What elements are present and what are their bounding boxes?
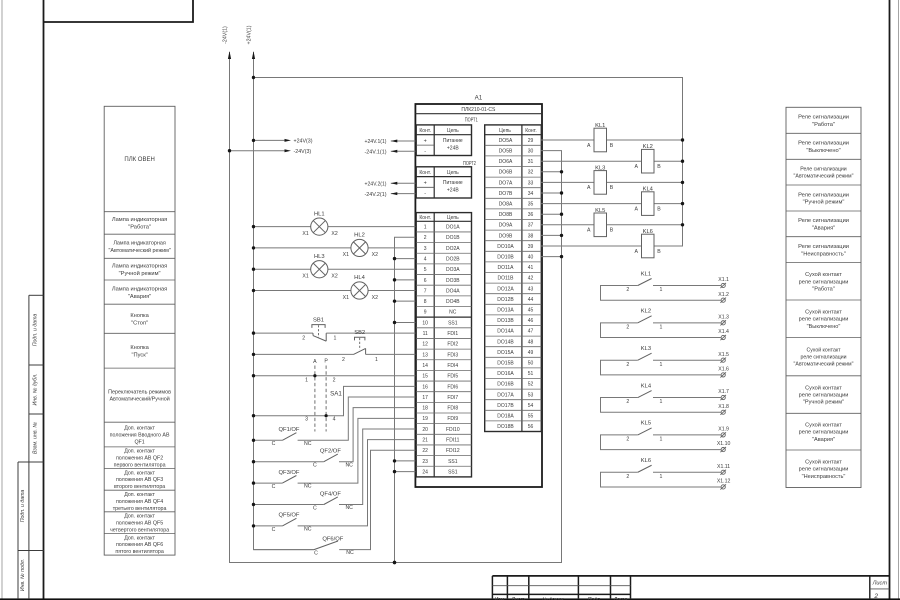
svg-text:QF1: QF1	[134, 439, 144, 445]
svg-text:реле сигнализации: реле сигнализации	[799, 467, 849, 473]
svg-text:B: B	[657, 249, 661, 255]
svg-text:Конт.: Конт.	[419, 128, 431, 134]
svg-text:Реле сигнализации: Реле сигнализации	[798, 115, 849, 121]
svg-text:X2: X2	[331, 274, 337, 280]
svg-text:DO14A: DO14A	[497, 329, 514, 335]
top-left stamp box	[44, 0, 194, 22]
svg-text:DO6B: DO6B	[499, 170, 513, 176]
wire -24V.2(1) to PORT2-	[365, 192, 416, 198]
svg-text:положения Вводного АВ: положения Вводного АВ	[110, 432, 170, 438]
svg-text:Лампа индикаторная: Лампа индикаторная	[113, 240, 166, 246]
svg-text:NC: NC	[449, 310, 457, 316]
svg-text:KL1: KL1	[641, 271, 651, 277]
svg-text:X1.10: X1.10	[717, 441, 731, 447]
svg-text:DO7A: DO7A	[499, 180, 513, 186]
svg-text:Реле сигнализации: Реле сигнализации	[798, 141, 849, 147]
svg-text:третьего вентилятора: третьего вентилятора	[113, 506, 167, 512]
svg-text:Автоматический/Ручной: Автоматический/Ручной	[109, 396, 169, 403]
svg-text:Сухой контакт: Сухой контакт	[805, 309, 842, 316]
node top rail tap	[252, 76, 255, 79]
node pin 10 junction	[393, 321, 396, 324]
svg-text:реле сигнализации: реле сигнализации	[799, 430, 849, 436]
svg-text:35: 35	[528, 202, 534, 208]
wire PLC pin 10 stub	[395, 321, 416, 323]
svg-text:X1.7: X1.7	[718, 389, 729, 395]
svg-text:DO3B: DO3B	[446, 278, 460, 284]
svg-text:FDI11: FDI11	[446, 438, 459, 444]
relay coil KL5	[541, 208, 684, 237]
svg-text:37: 37	[528, 223, 534, 229]
svg-text:KL6: KL6	[643, 229, 653, 235]
svg-text:Сухой контакт: Сухой контакт	[805, 384, 842, 391]
svg-text:"Автоматический режим": "Автоматический режим"	[794, 173, 854, 180]
svg-text:32: 32	[528, 170, 534, 176]
svg-text:положения АВ QF4: положения АВ QF4	[116, 499, 163, 505]
svg-text:A: A	[634, 206, 638, 212]
rail -24V(1)	[223, 26, 562, 563]
svg-text:Сухой контакт: Сухой контакт	[806, 346, 841, 353]
svg-text:2: 2	[626, 474, 629, 480]
svg-text:21: 21	[422, 438, 428, 444]
svg-text:"Ручной режим": "Ручной режим"	[803, 399, 844, 406]
svg-text:X2: X2	[372, 252, 378, 258]
svg-text:Взам. инв. №: Взам. инв. №	[33, 422, 39, 454]
relay contact KL5	[601, 421, 721, 450]
svg-text:KL3: KL3	[595, 165, 605, 171]
svg-text:P: P	[324, 358, 328, 364]
svg-text:C: C	[313, 463, 317, 469]
svg-text:HL1: HL1	[314, 211, 325, 217]
svg-text:51: 51	[528, 371, 534, 377]
svg-text:DO15A: DO15A	[497, 350, 514, 356]
svg-text:положения АВ QF3: положения АВ QF3	[116, 477, 163, 483]
svg-text:положения АВ QF6: положения АВ QF6	[116, 542, 163, 548]
svg-text:3: 3	[305, 417, 308, 423]
svg-text:11: 11	[423, 331, 428, 337]
relay coil KL1	[541, 123, 684, 152]
svg-text:+24V.1(1): +24V.1(1)	[365, 139, 387, 145]
wire top rail to coil bus	[254, 78, 683, 247]
svg-text:10: 10	[422, 320, 428, 326]
terminal X1.9	[718, 427, 729, 438]
svg-text:Сухой контакт: Сухой контакт	[805, 271, 842, 278]
title block	[492, 576, 889, 600]
svg-text:реле сигнализации: реле сигнализации	[799, 393, 849, 399]
wire +24V.2(1) to PORT2+	[365, 182, 416, 188]
svg-text:пятого вентилятора: пятого вентилятора	[115, 549, 164, 555]
svg-text:DO13B: DO13B	[497, 318, 514, 324]
svg-text:KL4: KL4	[641, 383, 652, 389]
svg-text:15: 15	[422, 374, 428, 380]
svg-text:DO1A: DO1A	[446, 225, 460, 231]
svg-text:FDI3: FDI3	[447, 352, 458, 358]
svg-text:Доп. контакт: Доп. контакт	[124, 449, 155, 455]
svg-text:KL2: KL2	[641, 309, 651, 315]
svg-text:50: 50	[528, 361, 534, 367]
svg-text:HL2: HL2	[354, 233, 365, 239]
PLC right pin table	[485, 125, 542, 432]
svg-text:NC: NC	[304, 527, 312, 533]
svg-text:B: B	[610, 185, 614, 191]
svg-text:"Авария": "Авария"	[128, 294, 151, 300]
svg-text:A: A	[313, 359, 317, 365]
svg-text:X1.6: X1.6	[718, 367, 729, 373]
svg-text:2: 2	[626, 362, 629, 368]
svg-text:7: 7	[424, 288, 427, 294]
svg-text:41: 41	[528, 265, 534, 271]
svg-text:-: -	[424, 191, 426, 197]
breaker aux contact QF4/OF	[252, 429, 416, 511]
svg-text:"Неисправность": "Неисправность"	[801, 251, 845, 257]
svg-text:SS1: SS1	[448, 459, 458, 465]
PLC left pin table	[416, 213, 471, 477]
svg-text:24: 24	[422, 469, 428, 475]
svg-text:Цепь: Цепь	[447, 128, 459, 134]
svg-text:"Ручной режим": "Ручной режим"	[119, 270, 161, 277]
selector switch SA1	[313, 358, 342, 431]
svg-text:X1.2: X1.2	[718, 292, 729, 298]
rail +24V(1)	[247, 25, 314, 549]
svg-text:X1: X1	[302, 274, 308, 280]
svg-text:SS1: SS1	[448, 469, 458, 475]
svg-text:"Неисправность": "Неисправность"	[802, 474, 846, 480]
relay contact KL2	[601, 309, 721, 338]
terminal X1.8	[718, 404, 729, 415]
terminal X1.6	[718, 367, 729, 378]
svg-text:2: 2	[873, 593, 878, 600]
relay contact KL1	[601, 271, 721, 300]
svg-text:положения АВ QF5: положения АВ QF5	[116, 520, 163, 526]
node pin 8 junction	[393, 299, 396, 302]
svg-text:14: 14	[422, 363, 428, 369]
svg-text:NC: NC	[304, 484, 312, 490]
svg-text:33: 33	[528, 180, 534, 186]
terminal X1.1	[718, 277, 729, 288]
PLC model row PLK210-01-CS	[415, 107, 542, 114]
svg-text:DO3A: DO3A	[446, 267, 460, 273]
svg-text:Реле сигнализации: Реле сигнализации	[798, 218, 849, 224]
svg-text:+24V(3): +24V(3)	[294, 139, 313, 145]
svg-text:Лампа индикаторная: Лампа индикаторная	[112, 217, 167, 223]
SA1 contact 3-4	[252, 386, 416, 422]
svg-text:49: 49	[528, 350, 534, 356]
svg-text:A: A	[634, 249, 638, 255]
svg-text:C: C	[272, 527, 276, 533]
svg-text:реле сигнализации: реле сигнализации	[799, 317, 849, 323]
node pin 24 junction	[393, 470, 396, 473]
svg-text:DO16B: DO16B	[497, 382, 514, 388]
svg-text:DO15B: DO15B	[497, 361, 514, 367]
svg-text:2: 2	[626, 437, 629, 443]
svg-text:HL4: HL4	[354, 275, 365, 281]
svg-text:FDI12: FDI12	[446, 448, 460, 454]
svg-text:A1: A1	[475, 95, 483, 102]
breaker aux contact QF3/OF	[252, 418, 416, 490]
svg-text:ПОРТ1: ПОРТ1	[465, 118, 478, 124]
svg-text:56: 56	[528, 424, 534, 430]
svg-text:QF4/OF: QF4/OF	[320, 491, 341, 497]
svg-text:9: 9	[424, 310, 427, 316]
svg-text:2: 2	[626, 399, 629, 405]
svg-text:-: -	[424, 149, 426, 155]
wire -24V.1(1) to PORT1-	[365, 150, 416, 156]
svg-text:Конт.: Конт.	[419, 215, 431, 221]
svg-text:DO16A: DO16A	[497, 371, 514, 377]
svg-text:-24V.1(1): -24V.1(1)	[365, 150, 387, 156]
svg-text:23: 23	[422, 459, 428, 465]
svg-text:Конт.: Конт.	[525, 128, 537, 134]
lamp HL4	[252, 275, 416, 301]
wire PLC pin 23 stub	[395, 460, 416, 462]
svg-text:FDI5: FDI5	[447, 374, 458, 380]
svg-text:B: B	[610, 228, 614, 234]
relay coil KL2	[541, 144, 684, 173]
svg-text:Переключатель режимов: Переключатель режимов	[108, 389, 171, 395]
svg-text:DO12B: DO12B	[497, 297, 514, 303]
lamp HL3	[252, 254, 416, 280]
svg-text:FDI10: FDI10	[446, 427, 460, 433]
svg-text:Лампа индикаторная: Лампа индикаторная	[112, 263, 167, 269]
svg-text:DO4A: DO4A	[446, 288, 460, 294]
svg-text:DO9B: DO9B	[499, 233, 513, 239]
svg-text:38: 38	[528, 233, 534, 239]
node bottom rail x1	[393, 561, 396, 564]
svg-text:"Стоп": "Стоп"	[131, 320, 148, 326]
relay coil KL6	[541, 229, 683, 258]
svg-text:Доп. контакт: Доп. контакт	[124, 535, 155, 541]
SA1 contact 1-2	[252, 374, 416, 383]
svg-text:44: 44	[528, 297, 534, 303]
wire PLC pin 8 stub	[395, 300, 416, 302]
svg-text:SB1: SB1	[313, 317, 324, 323]
svg-text:NC: NC	[346, 550, 354, 556]
terminal X1.11	[717, 464, 730, 475]
svg-text:X1.3: X1.3	[718, 314, 729, 320]
pushbutton SB1	[252, 317, 416, 341]
svg-text:Реле сигнализации: Реле сигнализации	[800, 166, 846, 172]
svg-text:Цепь: Цепь	[447, 215, 459, 221]
svg-text:"Авария": "Авария"	[812, 226, 835, 232]
relay contact KL3	[601, 346, 721, 375]
svg-text:X1: X1	[343, 252, 349, 258]
svg-text:29: 29	[528, 138, 534, 144]
legend table left	[104, 106, 175, 555]
svg-text:Цепь: Цепь	[499, 128, 511, 134]
svg-text:Инв. № подл.: Инв. № подл.	[20, 559, 26, 591]
svg-text:+24V.2(1): +24V.2(1)	[365, 182, 387, 188]
svg-text:5: 5	[424, 267, 427, 273]
svg-text:DO18B: DO18B	[497, 424, 514, 430]
terminal X1.7	[718, 389, 729, 400]
svg-text:39: 39	[528, 244, 534, 250]
svg-text:DO13A: DO13A	[497, 308, 514, 314]
svg-text:45: 45	[528, 308, 534, 314]
terminal X1.4	[718, 329, 729, 340]
svg-text:C: C	[272, 441, 276, 447]
svg-text:X1.1: X1.1	[718, 277, 729, 283]
svg-text:FDI8: FDI8	[447, 406, 458, 412]
svg-text:X1: X1	[302, 231, 308, 237]
svg-text:DO9A: DO9A	[499, 223, 513, 229]
svg-text:реле сигнализации: реле сигнализации	[799, 279, 849, 285]
svg-text:46: 46	[528, 318, 534, 324]
svg-text:Доп. контакт: Доп. контакт	[124, 492, 155, 498]
svg-text:Реле сигнализации: Реле сигнализации	[798, 192, 849, 198]
svg-text:FDI6: FDI6	[447, 384, 458, 390]
svg-text:Кнопка: Кнопка	[130, 313, 149, 319]
svg-text:+24В: +24В	[447, 146, 459, 152]
svg-text:DO5A: DO5A	[499, 138, 513, 144]
relay coil KL4	[541, 187, 684, 216]
svg-text:DO17B: DO17B	[497, 403, 514, 409]
svg-text:Сухой контакт: Сухой контакт	[805, 421, 842, 428]
svg-text:DO8B: DO8B	[499, 212, 513, 218]
lamp HL2	[252, 233, 416, 259]
svg-text:-24V(1): -24V(1)	[223, 26, 229, 44]
wire tap -24V(3)	[228, 149, 312, 155]
svg-text:SS1: SS1	[448, 320, 458, 326]
svg-text:C: C	[314, 551, 318, 557]
svg-text:FDI1: FDI1	[447, 331, 458, 337]
svg-text:"Работа": "Работа"	[128, 225, 151, 231]
breaker aux contact QF1/OF	[252, 397, 416, 447]
svg-text:Доп. контакт: Доп. контакт	[124, 514, 155, 520]
left margin column boxes	[18, 295, 44, 598]
svg-text:2: 2	[302, 336, 305, 342]
svg-text:3: 3	[424, 246, 427, 252]
svg-text:DO6A: DO6A	[499, 159, 513, 165]
svg-text:DO2B: DO2B	[446, 256, 460, 262]
svg-text:2: 2	[626, 287, 629, 293]
svg-text:1: 1	[659, 287, 662, 293]
svg-text:47: 47	[528, 329, 534, 335]
svg-text:QF6/OF: QF6/OF	[322, 536, 343, 542]
svg-text:"Авария": "Авария"	[812, 437, 835, 443]
svg-text:A: A	[587, 143, 591, 149]
svg-text:18: 18	[422, 406, 428, 412]
svg-text:+: +	[424, 138, 427, 144]
svg-text:"Ручной режим": "Ручной режим"	[803, 199, 845, 206]
svg-text:KL4: KL4	[643, 187, 654, 193]
svg-text:1: 1	[334, 336, 337, 342]
svg-text:54: 54	[528, 403, 534, 409]
svg-text:DO8A: DO8A	[499, 202, 513, 208]
svg-text:первого вентилятора: первого вентилятора	[114, 462, 166, 468]
svg-text:Питание: Питание	[443, 138, 463, 144]
terminal X1.3	[718, 314, 729, 325]
svg-text:X1.12: X1.12	[717, 479, 731, 485]
svg-text:Цепь: Цепь	[447, 170, 459, 176]
svg-text:2: 2	[333, 377, 336, 383]
svg-text:Доп. контакт: Доп. контакт	[124, 470, 155, 476]
svg-text:FDI4: FDI4	[447, 363, 458, 369]
terminal X1.12	[717, 479, 731, 490]
svg-text:"Работа": "Работа"	[812, 122, 835, 128]
wire PLC pin 24 stub	[395, 471, 416, 473]
svg-text:12: 12	[422, 342, 428, 348]
svg-text:"Выключено": "Выключено"	[807, 324, 841, 330]
svg-text:второго вентилятора: второго вентилятора	[114, 484, 165, 490]
svg-text:DO11A: DO11A	[497, 265, 514, 271]
wire PLC pin 4 stub	[395, 258, 416, 260]
svg-text:X2: X2	[331, 231, 337, 237]
svg-text:1: 1	[375, 357, 378, 363]
svg-text:2: 2	[424, 235, 427, 241]
wire +24V.1(1) to PORT1+	[365, 139, 416, 145]
svg-text:Лист: Лист	[872, 580, 888, 586]
bus minus collector	[395, 237, 416, 562]
svg-text:53: 53	[528, 392, 534, 398]
svg-text:20: 20	[422, 427, 428, 433]
breaker aux contact QF2/OF	[252, 408, 416, 469]
svg-text:42: 42	[528, 276, 534, 282]
relay contact KL6	[601, 458, 721, 487]
svg-text:DO10B: DO10B	[497, 255, 514, 261]
svg-text:Подп. и дата: Подп. и дата	[20, 490, 26, 523]
wire tap +24V(3)	[252, 139, 313, 145]
svg-text:2: 2	[626, 324, 629, 330]
svg-text:40: 40	[528, 255, 534, 261]
svg-text:+24V(1): +24V(1)	[247, 25, 253, 44]
svg-text:B: B	[657, 164, 661, 170]
svg-text:FDI2: FDI2	[447, 342, 458, 348]
PLC PORT2 terminal table	[416, 167, 471, 198]
svg-text:HL3: HL3	[314, 254, 325, 260]
svg-text:"Автоматический режим": "Автоматический режим"	[794, 361, 854, 368]
svg-text:DO4B: DO4B	[446, 299, 460, 305]
sheet number box	[870, 576, 890, 600]
svg-text:FDI9: FDI9	[447, 416, 458, 422]
svg-text:QF3/OF: QF3/OF	[279, 470, 300, 476]
svg-text:X2: X2	[372, 295, 378, 301]
svg-text:"Пуск": "Пуск"	[131, 352, 147, 358]
breaker aux contact QF6/OF	[254, 450, 416, 556]
svg-text:ПОРТ2: ПОРТ2	[463, 161, 476, 167]
PLC controller U A1 outer box	[415, 104, 542, 487]
relay coil KL3	[541, 165, 684, 194]
svg-text:четвертого вентилятора: четвертого вентилятора	[110, 527, 169, 533]
svg-text:1: 1	[659, 437, 662, 443]
svg-text:1: 1	[424, 225, 427, 231]
node pin 23 junction	[393, 459, 396, 462]
svg-text:+24В: +24В	[447, 188, 459, 194]
pushbutton SB2	[252, 330, 416, 363]
svg-text:положения АВ QF2: положения АВ QF2	[116, 456, 163, 462]
svg-text:DO18A: DO18A	[497, 414, 514, 420]
svg-text:C: C	[313, 505, 317, 511]
svg-text:SB2: SB2	[354, 330, 365, 336]
svg-text:31: 31	[528, 159, 534, 165]
node pin 4 junction	[393, 257, 396, 260]
svg-text:4: 4	[424, 256, 427, 262]
svg-text:X1: X1	[343, 295, 349, 301]
node minus bus to bottom rail	[393, 561, 396, 564]
svg-text:DO17A: DO17A	[497, 392, 514, 398]
svg-text:SA1: SA1	[330, 390, 342, 397]
svg-text:30: 30	[528, 149, 534, 155]
svg-text:1: 1	[659, 362, 662, 368]
svg-text:KL1: KL1	[595, 123, 605, 129]
svg-text:Реле сигнализации: Реле сигнализации	[798, 244, 849, 250]
svg-text:NC: NC	[345, 462, 353, 468]
svg-text:"Работа": "Работа"	[812, 286, 834, 292]
svg-text:KL6: KL6	[641, 458, 651, 464]
svg-text:Кнопка: Кнопка	[130, 345, 149, 351]
svg-text:X1.5: X1.5	[718, 352, 729, 358]
wire PLC pin 6 stub	[395, 279, 416, 281]
svg-text:-24V.2(1): -24V.2(1)	[365, 192, 387, 198]
svg-text:QF2/OF: QF2/OF	[320, 449, 341, 455]
